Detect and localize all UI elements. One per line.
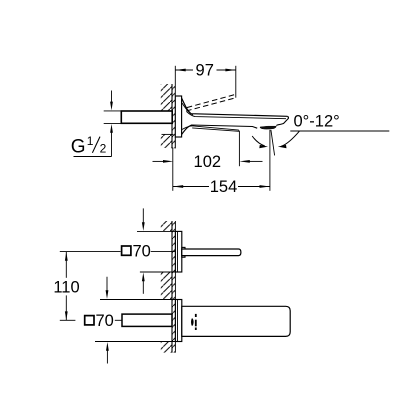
svg-text:70: 70 [96, 312, 114, 330]
dim 110 bottom tick [60, 319, 76, 321]
spout near-side wedge line B [192, 128, 239, 131]
square70 top label leader left [60, 251, 121, 253]
square70 top label leader right [151, 251, 176, 253]
dim 102 extension [238, 131, 240, 166]
spout wedge end tick [238, 130, 240, 131]
outside arrow below lever plate [142, 273, 145, 294]
dim 110 line [65, 252, 68, 320]
0-12 leader line [290, 130, 389, 132]
lever plate inner line [177, 231, 179, 272]
supply pipe plan [122, 314, 172, 326]
pipe top extension line [104, 110, 122, 112]
lever escutcheon plate [175, 231, 181, 272]
spout near-side wedge line A [191, 126, 239, 130]
outside arrow above lever plate [142, 208, 145, 231]
spout inner top line [187, 112, 287, 119]
lever handle base [182, 247, 185, 257]
mousseur icon dashes [195, 314, 197, 330]
square70 top label [122, 242, 151, 260]
square70 bottom leader right [115, 319, 122, 321]
spout plate inner line [177, 300, 179, 342]
wall hatch lower cap line [162, 133, 174, 135]
svg-text:110: 110 [53, 278, 79, 296]
pipe G1/2 inlet [121, 111, 172, 123]
dim 97 line [175, 69, 236, 72]
spout trumpet bottom curve [182, 125, 258, 135]
dashed tilt line upper [187, 94, 236, 107]
svg-text:102: 102 [194, 153, 222, 171]
square70 bottom label [85, 312, 114, 330]
wall finish line [174, 137, 176, 148]
dim 154 right extension [269, 130, 271, 191]
svg-text:1: 1 [87, 134, 94, 148]
svg-text:70: 70 [133, 242, 151, 260]
spout tip cut [276, 116, 288, 125]
wall hatch upper [161, 84, 172, 111]
pipe bottom extension line [104, 122, 122, 124]
wall hatch lower [161, 134, 172, 148]
spout escutcheon plate [175, 300, 181, 342]
wall hatch between plates [161, 272, 172, 300]
tilted stream line [271, 130, 275, 156]
wall finish line bottom [174, 221, 176, 353]
wall face line bottom [171, 221, 173, 353]
lever handle rod [182, 249, 241, 256]
svg-text:97: 97 [196, 62, 214, 80]
wall face extension line down (154/102 datum) [172, 148, 174, 191]
G1/2 leader line [74, 156, 112, 158]
G1/2 label [71, 134, 107, 158]
aerator [260, 126, 276, 129]
svg-text:154: 154 [210, 178, 238, 196]
spout plate bottom extension line [95, 341, 175, 343]
wall band ticks [172, 84, 175, 148]
pipe diameter arrow top [110, 91, 113, 111]
dim 97 left extension [174, 66, 176, 96]
spout trumpet top inner curve [182, 103, 193, 115]
tilt arc left [252, 136, 268, 148]
wall band ticks bottom [172, 221, 175, 353]
dim 102 left arrow [153, 160, 174, 163]
escutcheon flange [175, 96, 181, 137]
lever plate top extension line [137, 230, 175, 232]
lever plate bottom extension line [140, 271, 176, 273]
outside arrow above spout plate [106, 277, 109, 299]
svg-text:2: 2 [100, 142, 107, 156]
dashed tilt line lower [186, 98, 236, 111]
svg-text:0°-12°: 0°-12° [294, 113, 340, 131]
wall hatch below spout plate [161, 342, 172, 353]
spout body plan [182, 306, 290, 336]
pipe diameter arrow bottom [110, 124, 113, 157]
dim 102 right arrow [239, 160, 262, 163]
spout trumpet bottom inner curve [182, 126, 194, 130]
svg-text:G: G [71, 137, 86, 158]
mousseur icon lens [191, 318, 194, 326]
spout plate top extension line [100, 299, 175, 301]
tilt arc right [278, 131, 300, 148]
dim 154 line [173, 185, 270, 188]
wall face line [171, 84, 173, 148]
wall hatch above lever plate [161, 221, 172, 231]
dim 97 right extension [235, 66, 237, 98]
spout trumpet top curve [182, 98, 288, 116]
outside arrow below spout plate [106, 342, 109, 364]
